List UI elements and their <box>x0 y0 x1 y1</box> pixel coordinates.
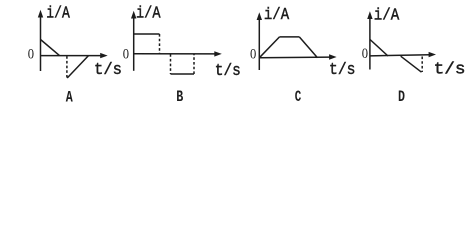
panel D x-axis <box>370 55 430 56</box>
svg-text:i/A: i/A <box>46 4 70 23</box>
panel D y-axis <box>369 17 371 70</box>
panel A waveform: bottom diagonal rising back to axis <box>67 56 88 78</box>
svg-text:i/A: i/A <box>264 6 290 25</box>
panel C y-axis arrowhead <box>257 12 262 20</box>
svg-text:0: 0 <box>28 46 34 62</box>
panel C waveform: trapezoid plateau <box>280 36 300 38</box>
svg-text:t/s: t/s <box>215 62 241 81</box>
panel A x-axis arrowhead <box>100 53 108 58</box>
panel C x-axis <box>259 56 330 59</box>
panel A y-axis arrowhead <box>38 10 43 18</box>
panel D waveform: dashed vertical back up to axis <box>421 57 423 73</box>
panel C x-axis arrowhead <box>329 54 337 59</box>
svg-text:C: C <box>295 88 302 106</box>
panel A waveform: dashed vertical drop below axis <box>66 56 68 77</box>
svg-text:0: 0 <box>123 47 129 63</box>
panel B x-axis <box>134 53 216 55</box>
svg-text:t/s: t/s <box>94 61 122 80</box>
svg-text:i/A: i/A <box>136 4 161 23</box>
svg-text:i/A: i/A <box>374 7 400 26</box>
svg-text:t/s: t/s <box>434 60 466 79</box>
panel A waveform: top diagonal from y-axis to t-axis <box>41 40 60 56</box>
panel A x-axis <box>41 55 102 57</box>
panel B waveform: dashed vertical at end of positive pulse <box>159 34 161 54</box>
panel D x-axis arrowhead <box>429 52 436 57</box>
panel B y-axis arrowhead <box>131 11 136 19</box>
panel B y-axis <box>133 15 135 71</box>
panel C waveform: trapezoid falling edge <box>299 37 317 58</box>
svg-text:0: 0 <box>250 47 256 63</box>
panel B x-axis arrowhead <box>214 51 222 56</box>
panel B waveform: top horizontal at +I <box>134 33 160 35</box>
panel A y-axis <box>40 15 42 71</box>
panel B waveform: bottom horizontal at -I <box>171 73 195 75</box>
panel D waveform: bottom diagonal continuing below axis <box>401 56 422 72</box>
svg-text:0: 0 <box>362 46 368 62</box>
panel D waveform: top diagonal from y-axis down to axis <box>370 40 388 57</box>
svg-text:A: A <box>66 88 73 106</box>
panel D y-axis arrowhead <box>367 11 372 19</box>
panel B waveform: dashed right side of negative pulse <box>193 54 195 74</box>
panel B waveform: dashed left side of negative pulse <box>170 54 172 74</box>
svg-text:B: B <box>176 88 183 106</box>
svg-text:t/s: t/s <box>329 61 356 80</box>
svg-text:D: D <box>398 88 405 106</box>
panel C waveform: trapezoid rising edge <box>259 37 279 58</box>
panel C y-axis <box>258 18 260 71</box>
